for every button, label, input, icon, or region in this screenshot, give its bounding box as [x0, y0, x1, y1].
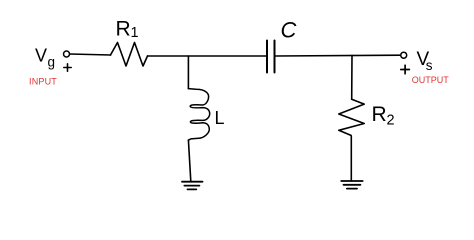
svg-text:C: C [281, 18, 297, 43]
output terminal [401, 52, 407, 58]
label R2 [372, 103, 395, 129]
wire node to R2 [351, 55, 353, 99]
svg-text:2: 2 [387, 113, 395, 129]
resistor R2 [339, 99, 364, 135]
capacitor C [267, 41, 275, 73]
inductor L [188, 89, 209, 141]
wire node to inductor [187, 56, 189, 89]
svg-text:s: s [426, 58, 433, 73]
wire capacitor to output [276, 54, 401, 57]
plus sign input [64, 64, 71, 71]
ground (left) [182, 182, 203, 190]
wire R1 to capacitor [148, 55, 267, 57]
svg-text:V: V [35, 46, 47, 66]
label R1 [116, 18, 139, 42]
wire inductor to ground [188, 140, 190, 181]
svg-text:OUTPUT: OUTPUT [412, 75, 450, 85]
wire input to R1 [70, 54, 111, 55]
svg-text:R: R [372, 103, 387, 126]
label Vs [417, 49, 433, 73]
label Vg [35, 46, 55, 70]
svg-text:1: 1 [131, 25, 139, 41]
svg-text:L: L [215, 108, 225, 128]
plus sign output [401, 65, 410, 74]
resistor R1 [111, 43, 148, 67]
input terminal [64, 51, 70, 57]
wire R2 to ground [350, 136, 352, 181]
ground (right) [341, 181, 363, 189]
svg-text:INPUT: INPUT [29, 77, 57, 87]
svg-text:R: R [116, 18, 131, 41]
svg-text:g: g [48, 55, 56, 70]
